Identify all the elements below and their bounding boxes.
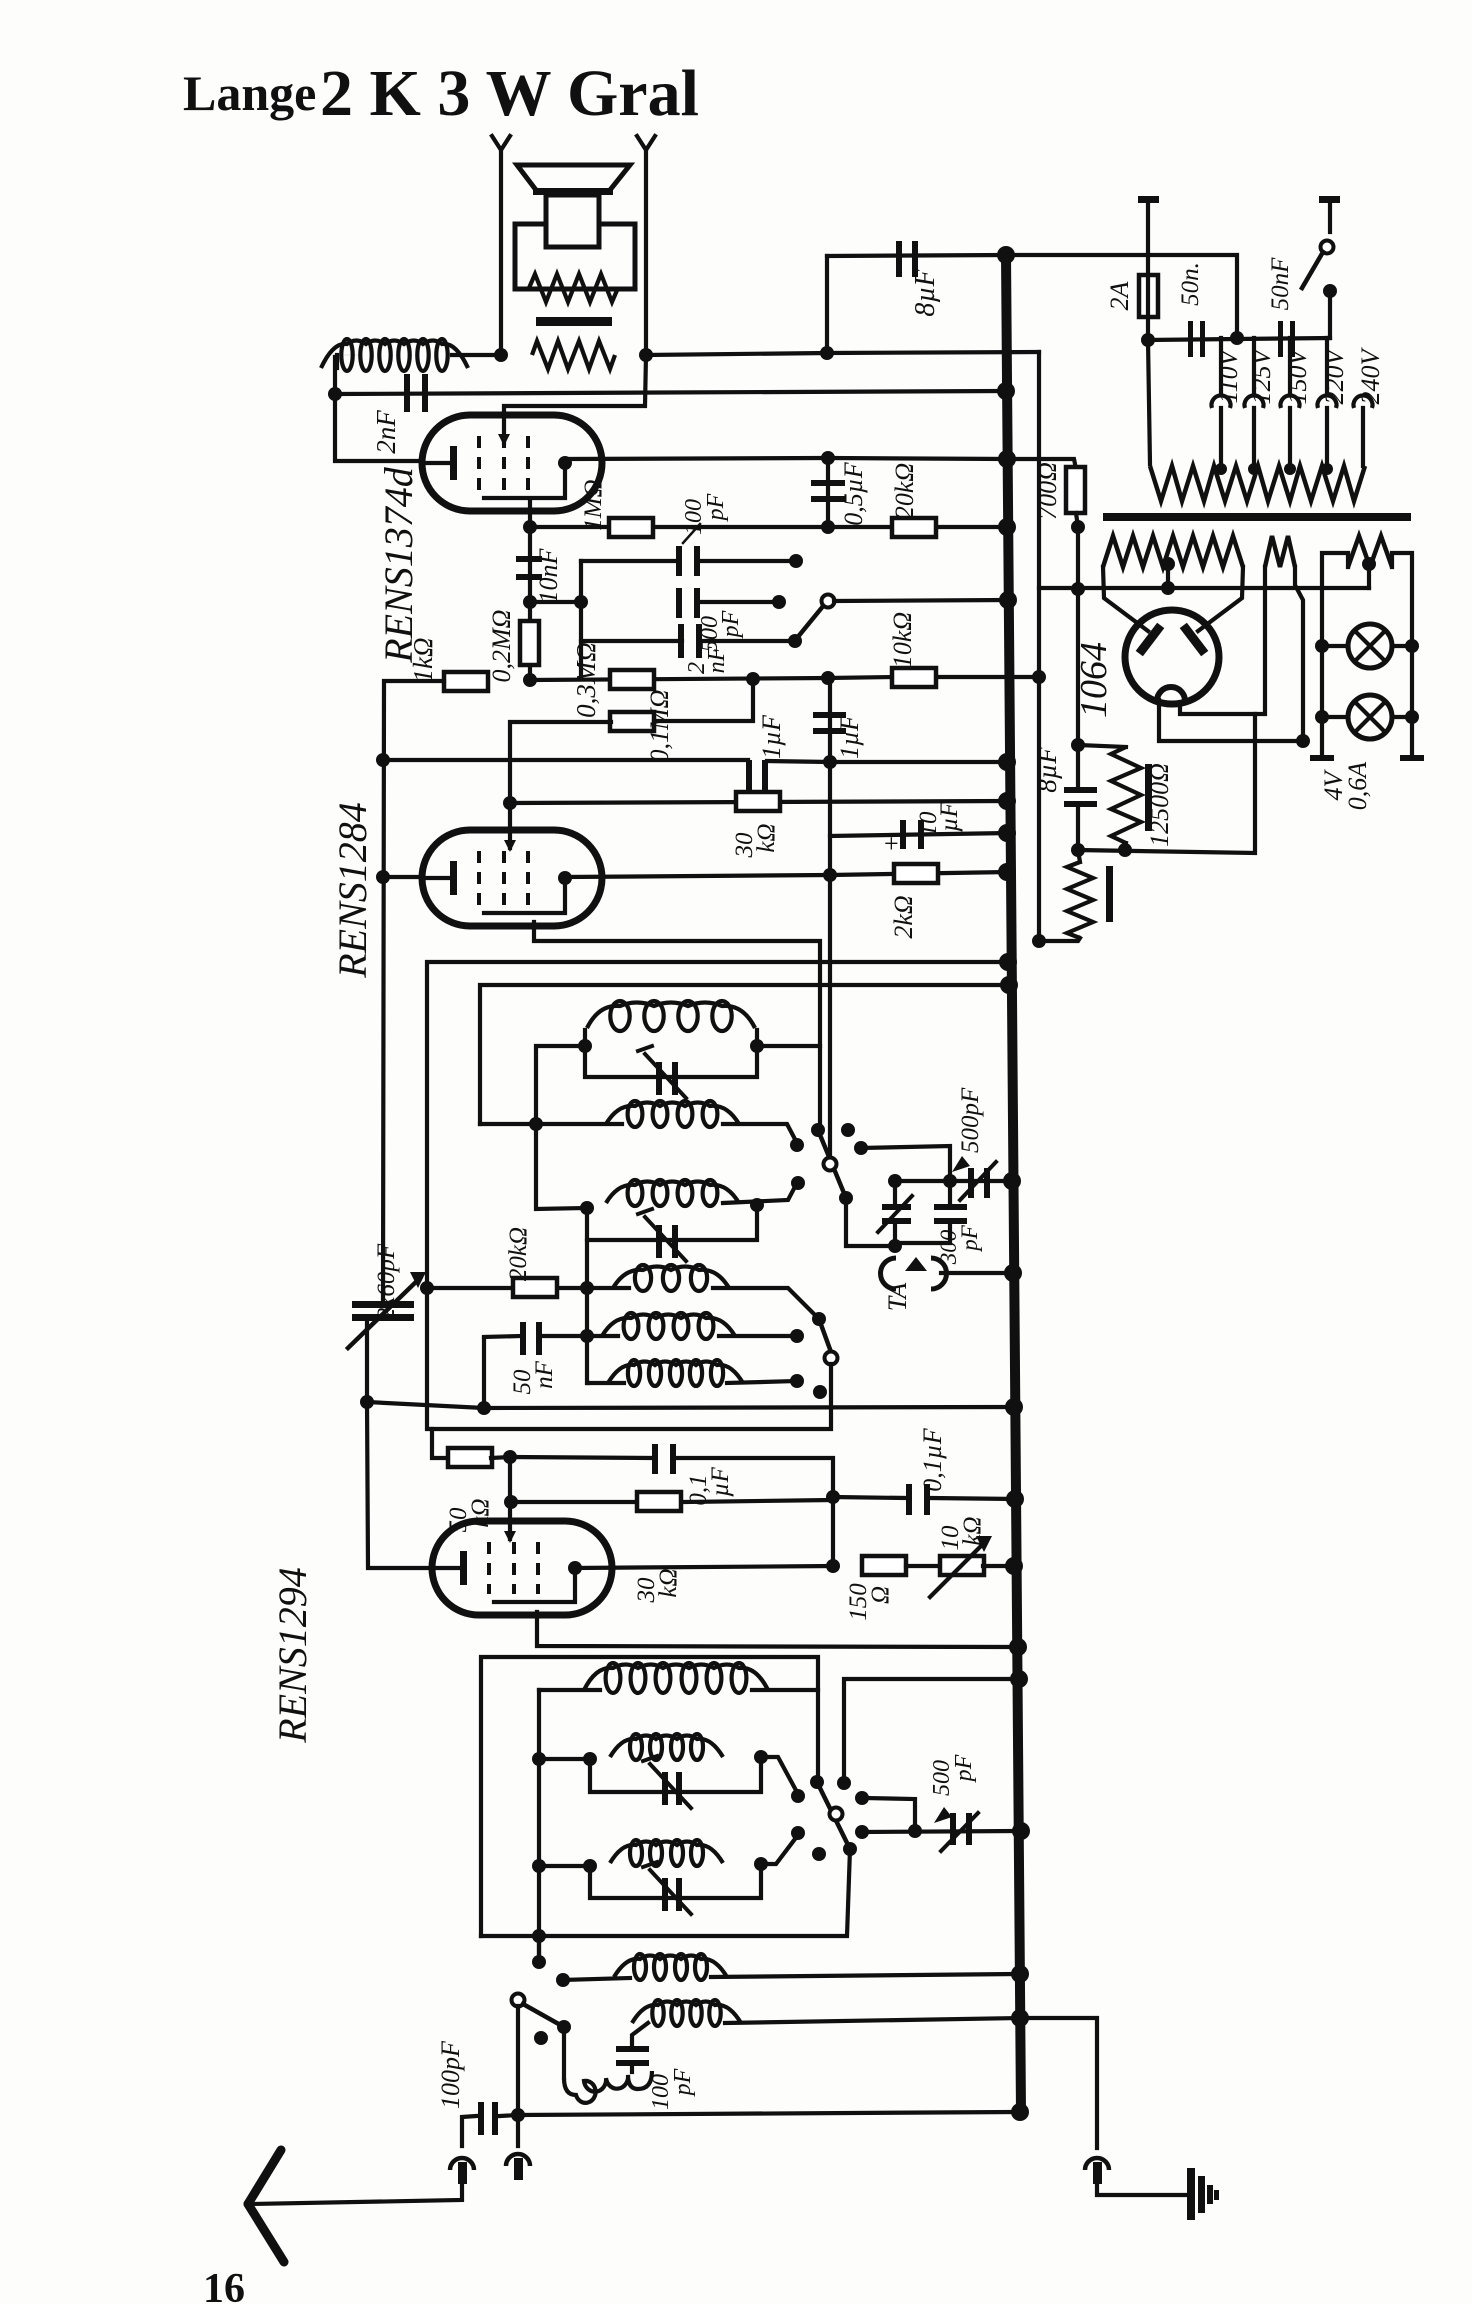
mains switch xyxy=(1319,196,1340,203)
speaker magnet bar xyxy=(536,317,612,326)
wire cathode rail RENS1294 xyxy=(367,1402,432,1568)
capacitor 500pF tone xyxy=(676,588,682,618)
dial lamp 1 xyxy=(1348,624,1392,668)
switch S2 contact b xyxy=(790,1374,804,1388)
node AVC junction xyxy=(360,1395,374,1409)
wire choke to speaker xyxy=(452,353,501,357)
wire B+ return xyxy=(1078,714,1255,853)
svg-text:1µF: 1µF xyxy=(835,714,864,759)
node 10k right xyxy=(1032,670,1046,684)
node G2 junction xyxy=(523,520,537,534)
node 500pF top line xyxy=(888,1174,902,1188)
wire tap line xyxy=(1148,338,1330,340)
wire anode RENS1294 xyxy=(575,1566,833,1568)
wire bank2 bus loop xyxy=(844,1679,1019,1783)
svg-text:0,6A: 0,6A xyxy=(1343,762,1372,811)
wire AF coupling line xyxy=(828,677,1039,678)
speaker terminal fork right xyxy=(637,136,655,150)
node grid leak junction xyxy=(523,595,537,609)
wire 500pF lower line xyxy=(862,1831,1021,1832)
svg-text:125V: 125V xyxy=(1247,346,1276,404)
svg-text:500pF: 500pF xyxy=(957,1087,984,1153)
svg-text:50nF: 50nF xyxy=(1267,257,1294,311)
wire tone cap rail xyxy=(530,600,581,604)
wire RENS1294 bottom lead xyxy=(537,1612,1018,1647)
svg-text:150V: 150V xyxy=(1283,346,1312,404)
capacitor 2nF tone xyxy=(678,624,684,658)
node 10uF tap xyxy=(823,868,837,882)
svg-text:pF: pF xyxy=(951,1754,977,1783)
capacitor 0.5uF xyxy=(826,458,830,527)
voice coil resistor zigzag xyxy=(532,341,615,369)
wire cathode RENS1374d xyxy=(335,394,422,461)
node box2 right xyxy=(750,1198,764,1212)
svg-text:kΩ: kΩ xyxy=(753,823,780,852)
svg-text:µF: µF xyxy=(707,1466,734,1496)
wire S1 blade out xyxy=(846,1198,895,1246)
svg-text:110V: 110V xyxy=(1214,347,1243,403)
coil L12 xyxy=(652,2000,663,2026)
node bus bottom xyxy=(1011,2103,1029,2121)
node speaker left junction xyxy=(494,348,508,362)
node field return xyxy=(1032,934,1046,948)
wire 500pF line xyxy=(895,1179,1012,1183)
box4 tuned circuit xyxy=(590,1866,761,1898)
svg-text:2kΩ: 2kΩ xyxy=(889,895,918,938)
wire speaker right lead xyxy=(644,150,648,355)
node bus L12 xyxy=(1011,2009,1029,2027)
node RC junction xyxy=(826,1490,840,1504)
trimmer capacitor box2 xyxy=(656,1225,662,1258)
node speaker right junction xyxy=(639,348,653,362)
node AVC left rail xyxy=(376,753,390,767)
trimmer capacitor 500pF lower xyxy=(950,1813,956,1845)
wire TA to bus xyxy=(941,1271,1013,1275)
wire tuning cap down xyxy=(365,1321,369,1402)
wire L11 to bus xyxy=(711,1974,1020,1977)
svg-text:2A: 2A xyxy=(1105,281,1134,310)
switch S3 contact b xyxy=(791,1826,805,1840)
svg-text:2nF: 2nF xyxy=(371,410,401,454)
node lamp tap xyxy=(1362,557,1376,571)
svg-text:8µF: 8µF xyxy=(910,268,941,316)
node 1uF right xyxy=(823,755,837,769)
svg-text:Ω: Ω xyxy=(867,1586,894,1604)
wire switch down xyxy=(1328,291,1332,338)
switch S2 blade xyxy=(819,1319,831,1352)
transformer core bar xyxy=(1103,513,1411,521)
svg-text:RENS1374d: RENS1374d xyxy=(376,466,421,664)
wire grid cap RENS1374d xyxy=(504,355,646,443)
resistor 150ohm xyxy=(862,1556,906,1575)
trimmer capacitor box3 xyxy=(662,1772,668,1805)
wire box1 to rail xyxy=(536,1046,587,1209)
field coil zigzag xyxy=(1078,850,1080,862)
svg-text:1µF: 1µF xyxy=(757,714,786,759)
switch S3 blade xyxy=(817,1782,850,1849)
wire AVC line 1uF xyxy=(383,758,748,762)
resistor 50kohm xyxy=(432,1429,449,1458)
node choke bottom xyxy=(328,387,342,401)
node inner frame bus xyxy=(1000,976,1018,994)
wire RENS1284 bottom lead xyxy=(534,922,820,1130)
node HT tap xyxy=(1071,582,1085,596)
tube RENS1374d xyxy=(422,415,602,511)
fuse 2A xyxy=(1138,196,1159,203)
node bus TA xyxy=(1004,1264,1022,1282)
earth ground symbol xyxy=(1187,2168,1195,2220)
box1 tuned circuit xyxy=(585,1030,757,1077)
svg-text:µF: µF xyxy=(936,801,963,831)
svg-text:Lange: Lange xyxy=(183,65,316,121)
jack earth xyxy=(1085,2158,1109,2170)
wire heater centre tap xyxy=(1166,564,1170,588)
svg-text:0,5µF: 0,5µF xyxy=(839,461,868,525)
node 20k bank xyxy=(420,1281,434,1295)
wire bus to earth jack xyxy=(1020,2018,1097,2148)
transformer primary winding xyxy=(1148,340,1150,464)
wire 12500 bottom xyxy=(1125,843,1126,850)
node bus L11 xyxy=(1011,1965,1029,1983)
rectifier tube 1064 xyxy=(1125,610,1219,704)
switch S3 contact a xyxy=(791,1789,805,1803)
wire 2nF line to HT bus xyxy=(335,391,1006,394)
wire box4 to S3 xyxy=(761,1835,798,1864)
capacitor 8uF top xyxy=(827,255,1006,256)
wire anode to 150ohm xyxy=(831,1497,835,1566)
svg-text:pF: pF xyxy=(670,2068,696,2097)
wire AF line down xyxy=(828,678,832,1157)
node box4 right xyxy=(754,1857,768,1871)
wire field bottom xyxy=(1039,938,1080,941)
node switch out xyxy=(1323,284,1337,298)
switch S4 contact float xyxy=(534,2031,548,2045)
coil L4 IF xyxy=(628,1180,643,1206)
node box3 right xyxy=(754,1750,768,1764)
coil L5 xyxy=(635,1265,651,1291)
wire 1064 cathode return xyxy=(1159,700,1303,741)
trimmer capacitor box4 xyxy=(662,1878,668,1911)
svg-text:16: 16 xyxy=(203,2266,245,2304)
svg-text:RENS1294: RENS1294 xyxy=(270,1567,315,1744)
wire bank1 inner frame xyxy=(480,985,1009,1124)
svg-text:pF: pF xyxy=(957,1224,982,1253)
svg-text:20kΩ: 20kΩ xyxy=(890,463,919,519)
node box3 left xyxy=(583,1752,597,1766)
wire 1k to left rail xyxy=(383,681,444,1306)
wire heater line xyxy=(1039,586,1369,590)
wire anode RENS1374d line xyxy=(565,458,1007,459)
svg-text:nF: nF xyxy=(531,1360,558,1389)
node 700 bottom xyxy=(1071,520,1085,534)
resistor 30kohm lower xyxy=(511,1500,634,1504)
capacitor 50nF a xyxy=(1188,321,1193,357)
switch S1 blade xyxy=(818,1130,846,1198)
node bus avc xyxy=(998,753,1016,771)
svg-text:1kΩ: 1kΩ xyxy=(408,637,438,682)
HT bus thick vertical xyxy=(1006,255,1021,2112)
wire mains top line xyxy=(1006,255,1237,338)
node bus tone xyxy=(999,591,1017,609)
wire rail to box3 xyxy=(539,1757,590,1761)
jack selector xyxy=(506,2154,530,2166)
svg-text:nF: nF xyxy=(704,646,730,673)
svg-text:240V: 240V xyxy=(1356,346,1385,404)
node rail x587 xyxy=(587,1240,588,1383)
node 500pF lower left xyxy=(855,1825,869,1839)
box3 tuned circuit xyxy=(590,1759,761,1792)
resistor 2kohm xyxy=(894,864,938,883)
wire grid cap RENS1294 xyxy=(491,1457,510,1521)
wire speaker to 8uF riser xyxy=(646,256,827,355)
capacitor 0.1uF right xyxy=(833,1497,905,1498)
node bus grid3 xyxy=(1009,1638,1027,1656)
capacitor 100pF antenna xyxy=(500,2115,518,2116)
node bus 500pF xyxy=(1003,1172,1021,1190)
potentiometer 10kohm xyxy=(906,1564,941,1568)
node box1 right xyxy=(750,1039,764,1053)
node bus screen xyxy=(998,518,1016,536)
wire bus bottom to antenna cap xyxy=(518,2112,1020,2115)
jack antenna input xyxy=(450,2158,474,2170)
coil L8 antenna big xyxy=(606,1663,621,1693)
node rect out xyxy=(1296,734,1310,748)
wire cathode RENS1284 xyxy=(383,875,422,879)
node 50k grid xyxy=(503,1450,517,1464)
wire S3 blade out xyxy=(481,1849,850,1936)
svg-text:0,1MΩ: 0,1MΩ xyxy=(645,690,674,763)
capacitor 1uF left xyxy=(746,760,752,790)
svg-text:0,2MΩ: 0,2MΩ xyxy=(487,610,516,683)
resistor 20kohm osc xyxy=(427,1286,587,1290)
capacitor 50nF b xyxy=(1278,321,1283,357)
node bus loop xyxy=(1010,1670,1028,1688)
coil L3 IF xyxy=(628,1101,643,1127)
wire L12 to bus xyxy=(725,2018,1020,2023)
svg-text:RENS1284: RENS1284 xyxy=(330,802,375,979)
wire thin HT riser xyxy=(1037,352,1041,941)
node rail coil2 xyxy=(529,1117,543,1131)
capacitor 10nF xyxy=(528,527,532,602)
svg-text:+: + xyxy=(884,829,899,858)
node bus top xyxy=(997,246,1015,264)
speaker cone xyxy=(517,165,630,190)
node bus anode3 xyxy=(1005,1557,1023,1575)
node antenna selector xyxy=(511,2108,525,2122)
resistor 30kohm upper xyxy=(510,801,1007,803)
svg-text:50n.: 50n. xyxy=(1177,262,1204,306)
resistor 0.2Mohm xyxy=(528,602,532,680)
switch S3 aux contact xyxy=(855,1791,869,1805)
resistor 20kohm xyxy=(892,518,936,537)
node fuse xyxy=(1141,333,1155,347)
switch tone contact xyxy=(788,634,802,648)
wire coil L3 line xyxy=(480,1122,622,1126)
switch S4 contact top xyxy=(532,1955,546,1969)
wire heater right lead to 1064 xyxy=(1198,567,1243,631)
svg-text:2x60pF: 2x60pF xyxy=(373,1243,400,1320)
wire L5 to switch S2 xyxy=(713,1288,819,1319)
node bus 2k xyxy=(998,863,1016,881)
dial lamp 2 xyxy=(1348,695,1392,739)
node box1 left xyxy=(578,1039,592,1053)
switch S3 contacts xyxy=(810,1775,824,1789)
wire S3 aux to 500pF line xyxy=(862,1798,915,1831)
wire anode RENS1284 line xyxy=(565,872,1007,877)
switch S2 contact float xyxy=(813,1385,827,1399)
wire choke left down xyxy=(333,357,337,394)
node bus 2nF xyxy=(997,382,1015,400)
svg-text:1MΩ: 1MΩ xyxy=(580,479,607,530)
svg-text:8µF: 8µF xyxy=(1032,747,1062,793)
coil L6 xyxy=(624,1313,639,1339)
svg-text:kΩ: kΩ xyxy=(959,1516,986,1545)
coil L7 xyxy=(628,1360,640,1386)
node bias junction xyxy=(523,673,537,687)
coil L13 small xyxy=(564,2071,652,2103)
node heater tap xyxy=(1161,557,1175,571)
node bus 500pF lower xyxy=(1012,1822,1030,1840)
lamp rails xyxy=(1322,553,1348,646)
switch S1 contact c xyxy=(854,1141,868,1155)
capacitor 100pF coupling xyxy=(562,2027,566,2078)
speaker frame xyxy=(515,224,635,289)
node 30k junction xyxy=(504,1495,518,1509)
wire pot to bus xyxy=(983,1564,1014,1568)
wire bank2 frame top xyxy=(481,1657,818,1936)
svg-text:0,3MΩ: 0,3MΩ xyxy=(571,642,601,718)
svg-text:0,1µF: 0,1µF xyxy=(918,1427,947,1491)
speaker neck xyxy=(546,195,599,247)
wire L8 right xyxy=(752,1688,818,1692)
tube RENS1284 xyxy=(422,830,602,926)
speaker terminal fork left xyxy=(492,136,510,150)
wire heater left lead to 1064 xyxy=(1103,567,1148,631)
node bus AVC xyxy=(1005,1398,1023,1416)
wire 30k to 0.1uF node xyxy=(685,1500,830,1502)
coil L10 xyxy=(630,1840,642,1866)
capacitor 100pF tone xyxy=(676,546,682,576)
coil L2 IF xyxy=(610,1001,629,1031)
tuning capacitor 2x60pF xyxy=(381,1304,385,1306)
node AF takeoff xyxy=(821,671,835,685)
resistor 10kohm xyxy=(892,668,936,687)
wire box3 to S3 xyxy=(761,1757,798,1794)
trimmer capacitor 500pF xyxy=(968,1168,974,1198)
wire rail to S4 contact xyxy=(537,1936,541,1962)
node anode net xyxy=(826,1559,840,1573)
node bus 10uF xyxy=(998,824,1016,842)
transformer heater winding xyxy=(1103,536,1243,567)
svg-text:pF: pF xyxy=(703,493,729,522)
svg-text:220V: 220V xyxy=(1320,346,1349,404)
node frame top bus xyxy=(999,953,1017,971)
wire tone switch to bus xyxy=(834,600,1008,601)
resistor 0.3Mohm xyxy=(610,670,654,689)
node bus 30k xyxy=(998,792,1016,810)
node 0.3M right xyxy=(746,672,760,686)
wire S2 to 50k line xyxy=(427,1288,831,1429)
capacitor trimmer left xyxy=(882,1204,911,1210)
wire grid line 0.3M xyxy=(530,678,828,680)
wire screen line xyxy=(530,525,1007,529)
capacitor 50nF xyxy=(482,1338,486,1410)
node 8uF2 top xyxy=(1071,738,1085,752)
antenna arrow xyxy=(248,2150,281,2204)
wire box1 right to switch xyxy=(757,1044,820,1048)
node bus anode1 xyxy=(998,450,1016,468)
switch S4 contact coil xyxy=(556,1973,570,1987)
node 0.5uF top xyxy=(821,451,835,465)
wire antenna jack riser xyxy=(516,2006,520,2146)
wire fuse down xyxy=(1146,317,1150,340)
lamp terminal bars xyxy=(1310,755,1334,761)
jack TA xyxy=(881,1258,897,1289)
node 0.5uF bottom xyxy=(821,520,835,534)
wire coil L4 to switch xyxy=(723,1181,798,1203)
node bus 01uF xyxy=(1006,1490,1024,1508)
resistor 12500ohm zigzag xyxy=(1078,745,1126,747)
wire rail to box4 xyxy=(539,1864,590,1868)
wire grid2 lead down xyxy=(528,502,532,527)
resistor 700ohm xyxy=(1007,459,1076,469)
wire speaker left lead xyxy=(499,150,503,355)
wire bank1 outer frame top xyxy=(427,962,1008,1288)
svg-text:12500Ω: 12500Ω xyxy=(1145,763,1174,847)
resistor 0.1Mohm xyxy=(653,679,753,721)
wire antenna lead xyxy=(252,2184,462,2204)
svg-text:pF: pF xyxy=(718,610,744,639)
tube RENS1294 xyxy=(432,1521,612,1615)
wire earth lead xyxy=(1097,2184,1187,2195)
wire 700 down xyxy=(1076,527,1080,745)
svg-text:100pF: 100pF xyxy=(436,2040,465,2109)
voltage taps 110V 125V 150V 220V 240V xyxy=(1219,338,1223,392)
svg-text:TA: TA xyxy=(883,1283,912,1312)
transformer dial lamp winding xyxy=(1348,536,1392,567)
switch S4 xyxy=(512,1994,525,2007)
capacitor 1uF right xyxy=(813,712,846,718)
wire rect winding left lead xyxy=(1180,567,1265,714)
svg-text:kΩ: kΩ xyxy=(655,1568,682,1597)
wire AVC long line xyxy=(367,1402,1014,1408)
node lower rail cross xyxy=(532,1929,546,1943)
coil L11 xyxy=(634,1954,646,1980)
svg-text:2 K 3 W Gral: 2 K 3 W Gral xyxy=(320,57,699,130)
node tap mid xyxy=(1230,331,1244,345)
wire rect winding right lead xyxy=(1295,567,1303,741)
switch S2 contact a xyxy=(790,1329,804,1343)
speaker damping resistor zigzag xyxy=(529,274,618,302)
transformer rectifier winding xyxy=(1265,536,1295,567)
switch S1 contact float xyxy=(841,1123,855,1137)
wire inner rail lower xyxy=(537,1690,541,1962)
capacitor 0.1uF mid xyxy=(510,1457,651,1458)
capacitor 300pF xyxy=(934,1204,967,1210)
box2 tuned circuit xyxy=(587,1205,757,1240)
wire S1c to 500pF line xyxy=(861,1146,950,1181)
node 8uF2 bottom xyxy=(1071,843,1085,857)
coil L1 output choke xyxy=(341,339,352,371)
wire L8 left xyxy=(539,1688,600,1692)
switch S1 contact a xyxy=(790,1138,804,1152)
switch tone xyxy=(797,605,824,638)
capacitor 10uF + plus sign xyxy=(830,833,1007,836)
trimmer capacitor box1 xyxy=(656,1062,662,1095)
svg-text:10nF: 10nF xyxy=(534,547,563,603)
capacitor 2nF xyxy=(404,374,410,412)
coil L9 xyxy=(630,1734,642,1760)
